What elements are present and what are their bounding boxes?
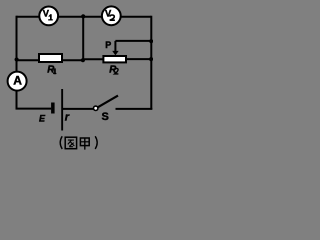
ammeter A (8, 72, 27, 91)
node junction dot right R2-line (151,59) (149, 57, 153, 61)
wire: left vertical (16, 16, 18, 110)
wire: middle horizontal left run (through R1) (17, 59, 85, 61)
voltmeter V2 (102, 6, 121, 25)
svg-text:V: V (43, 8, 50, 18)
svg-text:S: S (102, 111, 109, 123)
svg-text:E: E (39, 113, 46, 123)
wire: bottom left segment (corner to battery) (16, 108, 52, 110)
node junction dot right P-line (151,41) (149, 39, 153, 43)
node junction dot middle (83,60) (81, 58, 85, 62)
caption close paren (95, 136, 97, 149)
caption open paren (60, 136, 62, 149)
svg-text:A: A (13, 74, 22, 88)
battery negative plate (short thick) (51, 103, 55, 114)
wire: bottom right segment (switch contact to corner) (116, 108, 153, 110)
switch S pivot (94, 106, 98, 110)
svg-text:r: r (65, 111, 70, 123)
wire: top horizontal from top-left corner to top-right corner (17, 16, 152, 18)
node junction dot top (83,16.5) (81, 14, 85, 18)
wire: right vertical (150, 16, 152, 110)
caption char 图 (65, 137, 76, 149)
slider arrow P of rheostat (114, 41, 116, 51)
svg-text:V: V (105, 8, 112, 18)
switch S lever (96, 96, 118, 109)
wire: middle horizontal junction to R2 (83, 58, 104, 60)
wire: bottom middle segment (battery to switch pivot) (63, 108, 94, 110)
caption char 甲 (80, 138, 89, 150)
svg-text:P: P (105, 40, 111, 50)
wire: R2 right to right vertical (126, 58, 152, 60)
voltmeter V1 (39, 7, 58, 26)
wire: P branch horizontal to right vertical (115, 40, 151, 42)
wire: center vertical between top junction and middle junction (82, 16, 84, 61)
battery positive plate (long thin) (61, 89, 63, 131)
rheostat R2 body (103, 56, 126, 62)
resistor R1 body (39, 54, 62, 62)
node junction dot left (17,59.5) (15, 57, 19, 61)
